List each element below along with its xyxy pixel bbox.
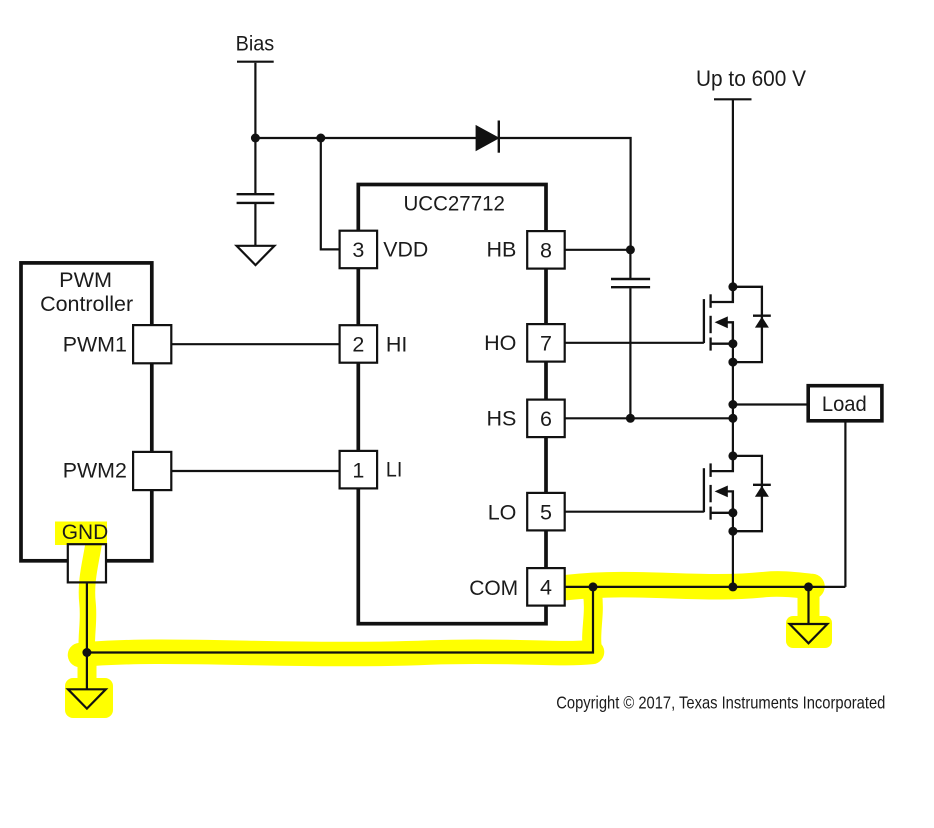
svg-text:6: 6 — [540, 407, 552, 431]
wire GND pin down — [86, 582, 88, 689]
pin 1 LI — [340, 451, 378, 489]
junction Q2 source — [728, 508, 737, 517]
svg-text:PWM1: PWM1 — [63, 332, 127, 356]
node Bias terminal — [237, 61, 274, 63]
wire diode cathode to HB feed — [499, 138, 631, 250]
svg-text:3: 3 — [352, 238, 364, 262]
wire LO to gate — [565, 511, 704, 513]
svg-text:HI: HI — [386, 332, 408, 356]
svg-text:HB: HB — [487, 238, 517, 262]
wire Load return — [844, 421, 846, 587]
ground power — [790, 624, 828, 643]
wire COM return to controller ground — [87, 587, 593, 653]
junction HB / bootstrap cap — [626, 245, 635, 254]
junction bias cap tap — [251, 134, 260, 143]
highlighter trace over GND return path — [55, 522, 832, 719]
highlight over ground return wire — [80, 652, 592, 655]
wire right ground drop — [807, 587, 809, 625]
pin 7 HO — [527, 324, 565, 362]
svg-text:Up to 600 V: Up to 600 V — [696, 66, 806, 91]
pin 2 HI — [340, 325, 378, 363]
node HV supply terminal — [714, 98, 752, 100]
svg-text:4: 4 — [540, 576, 552, 600]
wire HO to gate — [565, 342, 704, 344]
wire bias cap bottom — [254, 204, 256, 246]
pin 8 HB — [527, 231, 565, 269]
pin 3 VDD — [340, 231, 378, 269]
svg-text:HS: HS — [487, 407, 517, 431]
junction bootstrap cap / HS — [626, 414, 635, 423]
junction switch node / Load — [728, 400, 737, 409]
wire switch node to Load — [733, 403, 808, 405]
wire COM rail — [565, 586, 846, 588]
wire HS to switch node — [565, 417, 733, 419]
junction COM rail / power ground — [804, 582, 813, 591]
svg-text:GND: GND — [62, 520, 109, 544]
svg-text:HO: HO — [484, 331, 516, 355]
junction Q2 / COM rail — [728, 582, 737, 591]
highlight over power ground symbol — [798, 590, 820, 626]
svg-text:VDD: VDD — [383, 238, 428, 262]
wire bias cap top — [254, 138, 256, 193]
pin GND — [68, 544, 106, 582]
wire PWM1 to HI — [171, 343, 340, 345]
svg-text:5: 5 — [540, 500, 552, 524]
ground controller return — [68, 689, 106, 708]
wire HB to bootstrap — [565, 249, 631, 251]
junction Q2 body diode — [728, 527, 737, 536]
svg-text:Load: Load — [822, 392, 867, 416]
pin 6 HS — [527, 400, 565, 438]
gate driver U1 UCC27712 box — [358, 185, 546, 624]
svg-text:Copyright © 2017, Texas Instru: Copyright © 2017, Texas Instruments Inco… — [556, 693, 885, 713]
pin 4 COM — [527, 568, 565, 606]
transistor Q1 high-side — [704, 287, 733, 351]
svg-text:LI: LI — [386, 458, 402, 482]
highlight over GND label — [55, 522, 107, 546]
junction COM / return wire — [589, 582, 598, 591]
junction Q1 drain — [728, 282, 737, 291]
junction controller ground — [82, 648, 91, 657]
capacitor C1 plates — [237, 194, 275, 203]
junction Q2 drain — [728, 451, 737, 460]
transistor Q2 low-side — [704, 456, 733, 520]
pin PWM1 — [133, 325, 171, 363]
junction Q1 source — [728, 339, 737, 348]
wire Bias down — [254, 63, 256, 138]
junction switch node / HS — [728, 414, 737, 423]
svg-text:PWM: PWM — [59, 268, 112, 292]
svg-text:Controller: Controller — [40, 292, 133, 316]
Load box — [808, 386, 882, 421]
pin PWM2 — [133, 452, 171, 490]
svg-text:UCC27712: UCC27712 — [403, 192, 505, 216]
svg-text:1: 1 — [352, 458, 364, 482]
wire HV rail down to Q1 drain — [732, 99, 734, 302]
diode D1 bootstrap — [476, 125, 500, 151]
wire top rail to diode anode — [255, 137, 476, 139]
highlight over COM rail — [567, 584, 812, 588]
junction VDD tap — [316, 134, 325, 143]
wire bootstrap cap bottom to HS — [629, 288, 631, 418]
svg-text:2: 2 — [352, 333, 364, 357]
highlight over controller ground symbol — [65, 678, 113, 718]
highlight over GND pin wire — [87, 541, 94, 654]
svg-text:LO: LO — [488, 501, 517, 525]
wire Q1 source node down to Q2 drain — [732, 322, 734, 471]
wire VDD branch — [321, 138, 340, 249]
svg-text:PWM2: PWM2 — [63, 459, 127, 483]
wire Q2 source node down to COM — [732, 491, 734, 587]
PWM Controller box — [21, 263, 152, 561]
capacitor C2 bootstrap plates — [611, 279, 650, 287]
wire bootstrap cap top — [629, 250, 631, 278]
svg-text:Bias: Bias — [236, 32, 275, 56]
svg-text:COM: COM — [469, 576, 518, 600]
svg-text:7: 7 — [540, 331, 552, 355]
wire PWM2 to LI — [171, 470, 340, 472]
svg-text:8: 8 — [540, 238, 552, 262]
junction Q1 body diode — [728, 358, 737, 367]
highlight over COM riser wire — [592, 594, 594, 649]
pin 5 LO — [527, 493, 565, 531]
ground bias — [237, 246, 275, 265]
